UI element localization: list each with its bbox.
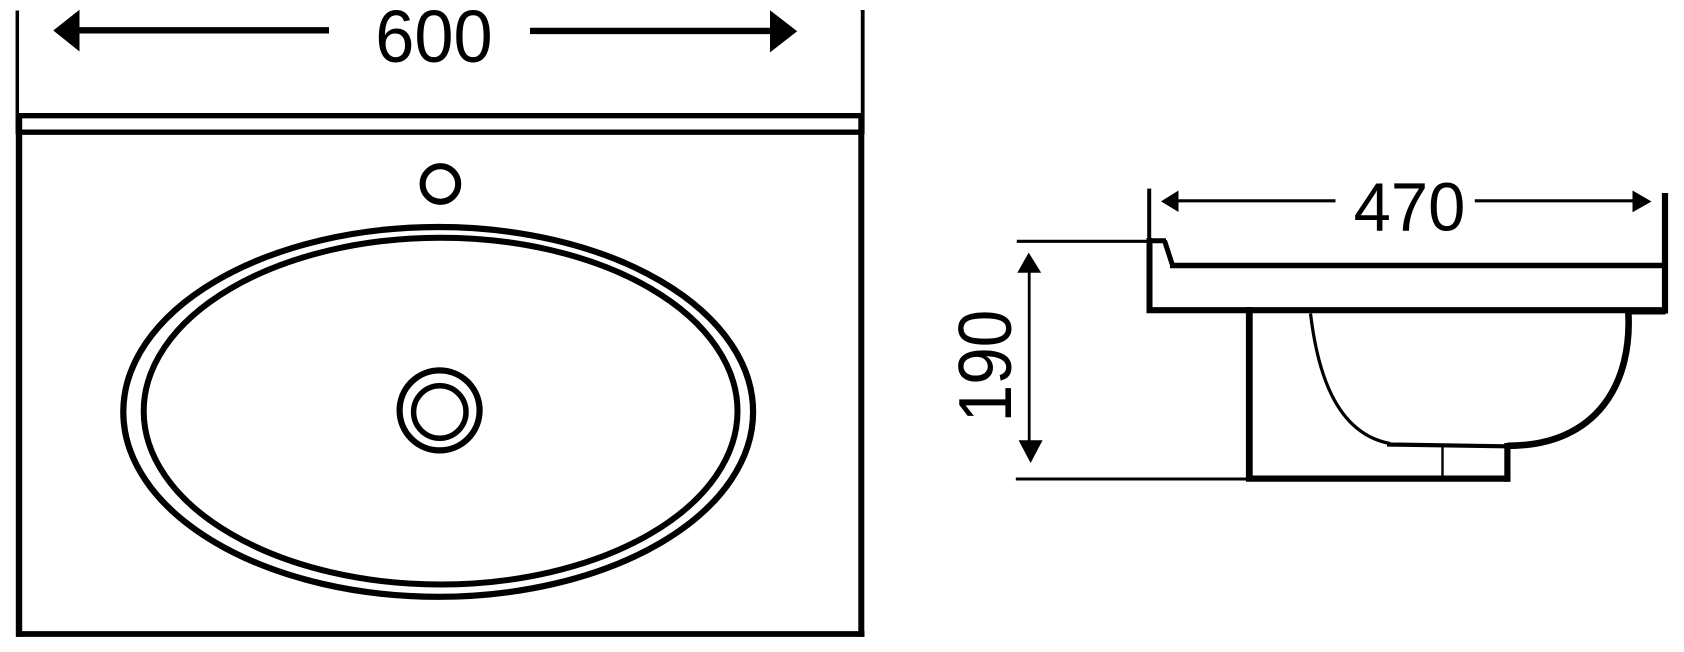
svg-text:600: 600 (375, 0, 492, 78)
svg-text:190: 190 (943, 310, 1027, 423)
svg-text:470: 470 (1354, 170, 1466, 246)
